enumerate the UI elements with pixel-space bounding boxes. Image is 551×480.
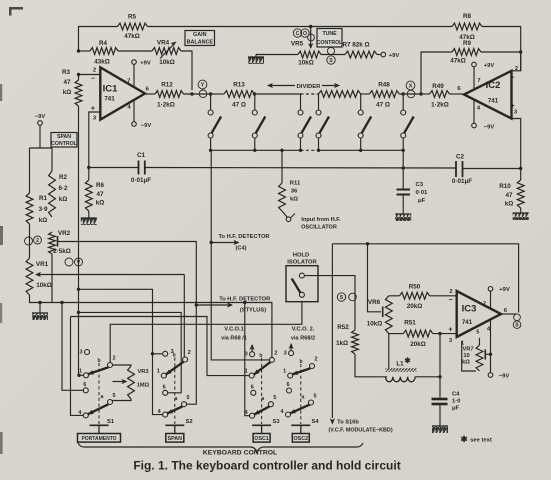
svg-text:6: 6 bbox=[146, 87, 150, 93]
svg-text:SPAN: SPAN bbox=[168, 436, 183, 442]
divider chain resistor bbox=[319, 91, 361, 98]
resistor R11 bbox=[279, 150, 301, 217]
svg-text:−: − bbox=[448, 297, 452, 304]
svg-text:6: 6 bbox=[163, 384, 166, 390]
node circles CO above VR5 bbox=[293, 29, 314, 41]
svg-text:2·5kΩ: 2·5kΩ bbox=[53, 248, 71, 255]
svg-text:S2: S2 bbox=[185, 419, 192, 425]
resistor R2 bbox=[49, 148, 68, 217]
resistor R52 bbox=[336, 324, 358, 354]
svg-text:6: 6 bbox=[83, 382, 86, 388]
svg-text:R2: R2 bbox=[59, 174, 68, 181]
wire hold isolator to R52 bbox=[304, 276, 355, 330]
svg-text:R3: R3 bbox=[62, 69, 71, 76]
svg-text:1kΩ: 1kΩ bbox=[336, 340, 348, 347]
svg-text:4: 4 bbox=[127, 105, 131, 111]
hold isolator switch box bbox=[286, 266, 318, 302]
svg-text:S4: S4 bbox=[311, 419, 319, 425]
wire rail r4 to S3 contact 1 bbox=[71, 317, 250, 376]
resistor R3 bbox=[62, 69, 82, 106]
svg-text:0·01μF: 0·01μF bbox=[452, 178, 472, 185]
svg-text:47: 47 bbox=[96, 191, 104, 198]
svg-text:47kΩ: 47kΩ bbox=[450, 58, 466, 65]
svg-text:kΩ: kΩ bbox=[505, 201, 514, 208]
switch S4 OSC2 bbox=[280, 351, 319, 443]
switch S3 OSC1 bbox=[245, 350, 281, 442]
potentiometer VR4 (gain balance) bbox=[152, 40, 192, 91]
svg-text:OSC1: OSC1 bbox=[254, 436, 269, 442]
svg-text:6·2: 6·2 bbox=[58, 185, 68, 192]
svg-text:5: 5 bbox=[476, 330, 479, 336]
svg-text:4: 4 bbox=[280, 409, 284, 415]
svg-text:kΩ: kΩ bbox=[59, 196, 68, 203]
svg-text:10kΩ: 10kΩ bbox=[367, 321, 383, 328]
svg-text:10kΩ: 10kΩ bbox=[36, 282, 52, 289]
svg-text:DIVIDER: DIVIDER bbox=[297, 84, 322, 90]
op-amp IC3 bbox=[448, 289, 507, 344]
svg-text:2: 2 bbox=[36, 238, 39, 244]
brace keyboard control bbox=[78, 443, 363, 457]
svg-text:R10: R10 bbox=[499, 183, 511, 190]
node circles on R1 branch bbox=[25, 236, 42, 245]
wire r2 branch to S1 contact 6 bbox=[62, 303, 83, 391]
svg-text:IC2: IC2 bbox=[486, 80, 501, 91]
svg-text:kΩ: kΩ bbox=[96, 200, 105, 207]
svg-text:−9V: −9V bbox=[35, 114, 46, 120]
potentiometer VR1 bbox=[26, 258, 52, 295]
svg-text:3·9: 3·9 bbox=[38, 206, 48, 213]
svg-text:20kΩ: 20kΩ bbox=[407, 303, 423, 310]
svg-text:C3: C3 bbox=[416, 182, 424, 188]
svg-text:1·2kΩ: 1·2kΩ bbox=[431, 102, 449, 109]
resistor R6 bbox=[85, 168, 104, 219]
svg-text:C2: C2 bbox=[456, 154, 465, 161]
svg-text:PORTAMENTO: PORTAMENTO bbox=[81, 436, 116, 442]
edge smudges bbox=[0, 84, 3, 454]
svg-text:36: 36 bbox=[291, 189, 298, 195]
svg-text:a: a bbox=[101, 394, 104, 400]
svg-text:CONTROL: CONTROL bbox=[51, 141, 77, 147]
label HOLD ISOLATOR bbox=[287, 253, 317, 266]
svg-text:V.C.O.1: V.C.O.1 bbox=[224, 327, 243, 333]
bus wire below switches bbox=[209, 149, 405, 152]
svg-text:6: 6 bbox=[504, 308, 508, 314]
svg-text:10kΩ: 10kΩ bbox=[298, 60, 314, 67]
svg-text:R13: R13 bbox=[233, 82, 245, 89]
wire VR1 wiper bbox=[35, 272, 184, 357]
wire stylus vertical to S2 contact 5 bbox=[187, 305, 197, 404]
wire IC3 feedback top bbox=[332, 242, 518, 418]
power -9V IC2 pin4 bbox=[472, 100, 495, 131]
divider dashed segment bbox=[301, 93, 319, 95]
capacitor C1 bbox=[87, 152, 456, 184]
resistor R10 bbox=[499, 169, 524, 214]
svg-text:3: 3 bbox=[245, 352, 248, 358]
note see text bbox=[460, 434, 491, 444]
svg-text:CONTROL: CONTROL bbox=[317, 40, 343, 46]
svg-text:10: 10 bbox=[463, 353, 469, 359]
wire VR2 wiper to stylus line bbox=[58, 242, 197, 306]
svg-text:OSCILLATOR: OSCILLATOR bbox=[301, 225, 337, 231]
svg-text:OSC2: OSC2 bbox=[293, 436, 308, 442]
wire main left vertical down bbox=[77, 75, 80, 376]
label SPAN CONTROL bbox=[51, 133, 78, 148]
svg-text:5: 5 bbox=[187, 395, 190, 401]
resistor R7 bbox=[321, 42, 381, 58]
svg-text:47 Ω: 47 Ω bbox=[232, 102, 246, 109]
svg-text:R8: R8 bbox=[463, 13, 472, 20]
node Y bbox=[198, 80, 212, 98]
terminal input from HF oscillator bbox=[286, 214, 341, 231]
svg-text:S: S bbox=[340, 295, 344, 301]
svg-text:1: 1 bbox=[245, 369, 248, 375]
svg-text:X: X bbox=[409, 83, 413, 89]
svg-text:(V.C.F. MODULATE−KBD): (V.C.F. MODULATE−KBD) bbox=[328, 428, 392, 434]
wire IC3 output bbox=[501, 313, 517, 315]
ground under R10 bbox=[513, 213, 529, 220]
svg-text:741: 741 bbox=[462, 319, 473, 326]
label GAIN BALANCE bbox=[185, 31, 215, 46]
wire VR1 bottom rail and ground bbox=[30, 254, 53, 320]
power +9V IC1 pin7 bbox=[132, 60, 151, 87]
svg-text:4: 4 bbox=[477, 106, 481, 112]
divider label with arrows bbox=[267, 83, 340, 90]
wire IC1 pin2 bbox=[77, 73, 101, 76]
svg-text:✱: ✱ bbox=[460, 434, 468, 444]
arrow to HF detector C4 bbox=[211, 234, 269, 252]
svg-text:0·01μF: 0·01μF bbox=[131, 177, 151, 184]
svg-text:kΩ: kΩ bbox=[290, 197, 298, 203]
resistor R4 bbox=[77, 40, 152, 66]
capacitor C3 bbox=[397, 150, 429, 214]
node circles at R52 top bbox=[337, 293, 356, 301]
wire rail r1 to S2 bbox=[79, 289, 163, 414]
svg-text:R51: R51 bbox=[404, 320, 416, 327]
svg-text:3: 3 bbox=[449, 338, 453, 344]
svg-text:2: 2 bbox=[113, 356, 116, 362]
svg-text:2: 2 bbox=[274, 350, 277, 356]
svg-text:10kΩ: 10kΩ bbox=[159, 59, 175, 66]
ground under C4 bbox=[432, 426, 448, 433]
wire tune wiper from top rail bbox=[308, 27, 313, 50]
svg-text:5: 5 bbox=[113, 393, 116, 399]
resistor R50 bbox=[389, 284, 457, 311]
op-amp IC1 bbox=[91, 67, 150, 121]
resistor R13 bbox=[211, 82, 301, 109]
potentiometer VR5 (tune) bbox=[256, 41, 321, 67]
svg-text:R12: R12 bbox=[161, 82, 173, 89]
svg-text:2: 2 bbox=[449, 289, 452, 295]
resistor R12 bbox=[155, 82, 211, 109]
svg-text:6: 6 bbox=[457, 86, 461, 92]
potentiometer VR7 bbox=[461, 330, 491, 372]
svg-text:kΩ: kΩ bbox=[462, 360, 470, 366]
svg-text:+9V: +9V bbox=[389, 53, 400, 59]
wire rail r3 to S2 contact 6 bbox=[79, 312, 182, 392]
svg-text:S: S bbox=[515, 323, 519, 329]
svg-text:−9V: −9V bbox=[141, 123, 152, 129]
svg-text:VR4: VR4 bbox=[157, 40, 170, 47]
svg-text:3: 3 bbox=[284, 351, 287, 357]
svg-text:5: 5 bbox=[273, 395, 276, 401]
resistor R51 bbox=[389, 320, 457, 348]
svg-text:μF: μF bbox=[452, 406, 460, 412]
resistor R48 bbox=[361, 82, 421, 109]
svg-text:R11: R11 bbox=[290, 181, 301, 187]
resistor R9 bbox=[421, 40, 522, 94]
label VCO2 bbox=[289, 327, 316, 351]
svg-text:VR2: VR2 bbox=[58, 230, 71, 237]
potentiometer VR6 bbox=[367, 296, 392, 334]
svg-text:47 Ω: 47 Ω bbox=[376, 102, 390, 109]
svg-text:To S16b: To S16b bbox=[337, 420, 359, 426]
resistor R49 bbox=[421, 83, 464, 109]
svg-text:S3: S3 bbox=[272, 419, 280, 425]
node X bbox=[402, 81, 423, 98]
wire VR6 bottom to L1 core bbox=[388, 334, 390, 369]
wire VR6 drop bbox=[368, 244, 382, 312]
power +9V IC3 pin7 bbox=[488, 287, 510, 309]
svg-text:1MΩ: 1MΩ bbox=[137, 383, 150, 389]
svg-text:R50: R50 bbox=[409, 284, 421, 291]
svg-text:5: 5 bbox=[314, 394, 317, 400]
capacitor C2 bbox=[452, 154, 523, 186]
svg-text:741: 741 bbox=[104, 96, 115, 103]
node circles IC3 output bbox=[513, 314, 521, 329]
svg-text:R7 82k Ω: R7 82k Ω bbox=[342, 42, 369, 49]
svg-text:VR1: VR1 bbox=[36, 261, 49, 268]
svg-text:R48: R48 bbox=[378, 82, 390, 89]
svg-text:HOLD: HOLD bbox=[293, 253, 309, 259]
svg-text:−9V: −9V bbox=[484, 125, 495, 131]
power +9V IC2 pin7 bbox=[472, 62, 495, 89]
svg-text:L1: L1 bbox=[396, 361, 404, 368]
svg-text:R6: R6 bbox=[96, 182, 105, 189]
label VCO1 bbox=[221, 327, 255, 352]
svg-text:43kΩ: 43kΩ bbox=[94, 59, 110, 66]
caption Fig.1 bbox=[133, 459, 400, 473]
inductor L1 bbox=[386, 356, 442, 382]
svg-text:C1: C1 bbox=[137, 152, 146, 159]
switch S2 SPAN bbox=[157, 349, 193, 442]
label TUNE CONTROL bbox=[317, 29, 343, 48]
svg-text:47: 47 bbox=[505, 192, 513, 199]
svg-text:2: 2 bbox=[188, 350, 191, 356]
wire IC2 pin2 from R9 bbox=[512, 52, 521, 71]
arrow to HF detector stylus bbox=[195, 297, 271, 314]
wire IC1 pin3 to R6 bbox=[89, 112, 101, 168]
svg-text:Y: Y bbox=[201, 82, 205, 88]
svg-text:VR6: VR6 bbox=[368, 299, 381, 306]
op-amp IC2 bbox=[457, 66, 518, 119]
svg-text:7: 7 bbox=[483, 302, 486, 308]
potentiometer VR2 bbox=[49, 230, 71, 255]
terminal +9V R7 bbox=[381, 52, 399, 59]
svg-text:1: 1 bbox=[79, 368, 82, 374]
svg-text:47: 47 bbox=[63, 79, 71, 86]
capacitor C4 bbox=[432, 334, 461, 426]
svg-text:VR5: VR5 bbox=[291, 41, 304, 48]
wire S1 contact1 feed bbox=[77, 374, 83, 377]
page corner mark bbox=[9, 7, 23, 16]
svg-text:μF: μF bbox=[418, 198, 426, 204]
svg-text:2: 2 bbox=[315, 357, 318, 363]
svg-text:kΩ: kΩ bbox=[63, 89, 72, 96]
node circles right of VR5 bbox=[327, 47, 335, 64]
svg-text:Fig. 1. The keyboard controlle: Fig. 1. The keyboard controller and hold… bbox=[133, 459, 400, 473]
svg-text:KEYBOARD CONTROL: KEYBOARD CONTROL bbox=[203, 450, 277, 457]
svg-text:R9: R9 bbox=[463, 40, 472, 47]
svg-text:ISOLATOR: ISOLATOR bbox=[287, 260, 317, 266]
svg-text:+9V: +9V bbox=[140, 61, 151, 67]
svg-text:GAIN: GAIN bbox=[193, 32, 207, 38]
svg-text:3: 3 bbox=[93, 116, 97, 122]
svg-text:R1: R1 bbox=[39, 195, 48, 202]
wire IC1 output bbox=[145, 93, 155, 95]
svg-text:0·01: 0·01 bbox=[416, 190, 429, 196]
ground under R6 bbox=[81, 218, 97, 225]
svg-text:+9V: +9V bbox=[499, 287, 510, 293]
svg-text:+: + bbox=[448, 327, 452, 334]
node circles on left vertical bbox=[65, 258, 83, 266]
svg-text:S: S bbox=[329, 58, 333, 64]
svg-text:a: a bbox=[302, 395, 305, 401]
svg-text:VR7: VR7 bbox=[462, 347, 473, 353]
span control -9V terminal bbox=[30, 114, 53, 148]
svg-text:SPAN: SPAN bbox=[57, 134, 71, 140]
svg-text:IC3: IC3 bbox=[462, 304, 477, 315]
wire hold keying rail bbox=[110, 302, 302, 363]
svg-text:via R68 /1: via R68 /1 bbox=[221, 336, 247, 342]
svg-text:C4: C4 bbox=[452, 392, 460, 398]
svg-text:V: V bbox=[77, 260, 81, 266]
svg-text:V.C.O. 2.: V.C.O. 2. bbox=[292, 327, 315, 333]
svg-text:(C4): (C4) bbox=[235, 246, 246, 252]
svg-text:−9V: −9V bbox=[499, 374, 510, 380]
wire r4 branch to S1 contact 4 bbox=[71, 317, 84, 416]
svg-text:−: − bbox=[510, 75, 514, 82]
wire top feedback rail bbox=[79, 25, 521, 71]
svg-text:see text: see text bbox=[470, 438, 492, 444]
svg-text:3: 3 bbox=[79, 350, 82, 356]
svg-text:BALANCE: BALANCE bbox=[187, 40, 214, 46]
svg-text:VR3: VR3 bbox=[137, 369, 148, 375]
power -9V IC1 pin4 bbox=[132, 100, 152, 129]
svg-text:7: 7 bbox=[477, 78, 480, 84]
svg-text:S1: S1 bbox=[107, 419, 115, 425]
svg-text:47kΩ: 47kΩ bbox=[124, 33, 140, 40]
resistor R8 bbox=[452, 13, 482, 41]
svg-text:2: 2 bbox=[93, 68, 96, 74]
svg-text:1·0: 1·0 bbox=[452, 399, 460, 405]
wire r2 branch to S3 contact 4 bbox=[245, 303, 250, 416]
svg-text:1: 1 bbox=[157, 369, 160, 375]
svg-text:R52: R52 bbox=[337, 324, 349, 331]
svg-text:R5: R5 bbox=[128, 14, 137, 21]
svg-text:✱: ✱ bbox=[404, 356, 411, 365]
svg-text:O: O bbox=[303, 31, 307, 37]
wire bus column down (C) bbox=[210, 150, 270, 360]
wire rail r2 ground rail to S3 bbox=[52, 301, 272, 358]
arrow to S16b bbox=[328, 418, 392, 433]
svg-text:R49: R49 bbox=[432, 83, 444, 90]
potentiometer VR3 bbox=[112, 365, 149, 401]
svg-text:+9V: +9V bbox=[484, 63, 495, 69]
svg-text:20kΩ: 20kΩ bbox=[410, 341, 426, 348]
resistor R5 bbox=[118, 14, 148, 41]
resistor R1 bbox=[26, 148, 48, 258]
svg-text:3: 3 bbox=[514, 110, 518, 116]
svg-text:via R68/2: via R68/2 bbox=[291, 336, 315, 342]
svg-text:IC1: IC1 bbox=[103, 84, 119, 95]
wire R52 to L1 bbox=[355, 354, 387, 377]
svg-text:6: 6 bbox=[286, 382, 289, 388]
svg-text:741: 741 bbox=[488, 98, 499, 105]
svg-text:−: − bbox=[91, 76, 95, 83]
switch S1 PORTAMENTO bbox=[78, 350, 121, 443]
svg-text:1·2kΩ: 1·2kΩ bbox=[157, 102, 175, 109]
divider tap switches bbox=[208, 94, 414, 150]
power -9V IC3 pin4 bbox=[488, 320, 509, 380]
svg-text:6: 6 bbox=[251, 384, 254, 390]
svg-text:7: 7 bbox=[127, 79, 130, 85]
svg-text:(STYLUS): (STYLUS) bbox=[240, 308, 266, 314]
svg-text:TUNE: TUNE bbox=[322, 31, 337, 37]
svg-text:+: + bbox=[510, 103, 514, 110]
svg-text:Input from H.F.: Input from H.F. bbox=[301, 217, 341, 223]
wire IC2 pin3 down to C2 line bbox=[512, 119, 521, 169]
svg-text:C: C bbox=[296, 31, 300, 37]
ground tune control left bbox=[248, 55, 264, 65]
svg-text:R4: R4 bbox=[99, 40, 108, 47]
svg-text:To H.F. DETECTOR: To H.F. DETECTOR bbox=[219, 234, 270, 240]
svg-text:1: 1 bbox=[283, 369, 286, 375]
svg-text:kΩ: kΩ bbox=[39, 217, 48, 224]
ground under C3 bbox=[395, 214, 411, 221]
